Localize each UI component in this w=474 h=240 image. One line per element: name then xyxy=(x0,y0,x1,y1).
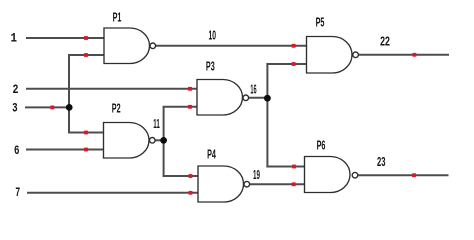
bubble P1 output xyxy=(150,43,156,49)
gate NAND P6 body xyxy=(305,157,351,193)
wire input line 6 xyxy=(26,149,104,151)
pin mark line3 xyxy=(50,106,54,110)
pin mark P2A xyxy=(84,131,88,135)
wire net 22 output xyxy=(359,54,449,56)
junction node 3 xyxy=(66,104,73,111)
bubble P6 output xyxy=(352,172,358,178)
wire vertical net3 xyxy=(68,54,70,134)
svg-text:P5: P5 xyxy=(316,15,325,29)
svg-text:22: 22 xyxy=(380,35,390,49)
bubble P3 output xyxy=(243,95,249,101)
bubble P2 output xyxy=(150,138,156,144)
svg-text:19: 19 xyxy=(253,168,260,182)
pin mark net22 xyxy=(413,53,417,57)
svg-text:P2: P2 xyxy=(112,101,121,115)
bubble P4 output xyxy=(244,181,250,187)
svg-text:P4: P4 xyxy=(207,147,216,161)
pin mark P6A xyxy=(292,165,296,169)
wire vertical net 11 xyxy=(163,107,165,177)
wire net 16 stub from P3 bubble xyxy=(249,97,269,99)
gate NAND P4 body xyxy=(198,166,244,202)
pin mark line6-P2B xyxy=(84,148,88,152)
gate NAND P1 body xyxy=(104,28,150,64)
svg-text:P3: P3 xyxy=(206,60,215,74)
pin mark P6B xyxy=(292,182,296,186)
svg-text:11: 11 xyxy=(153,117,160,131)
svg-text:2: 2 xyxy=(13,82,19,97)
junction node 11 xyxy=(160,137,167,144)
gate NAND P5 body xyxy=(307,37,353,74)
pin mark line1-P1A xyxy=(84,36,88,40)
bubble P5 output xyxy=(353,52,359,58)
junction node 16 xyxy=(264,95,271,102)
wire net 11 stub from P2 bubble xyxy=(155,139,164,141)
pin mark line2-P3A xyxy=(188,87,192,91)
svg-text:10: 10 xyxy=(208,29,216,43)
pin mark net23 xyxy=(412,173,416,177)
wire P1 pin B stub xyxy=(68,54,104,56)
svg-text:6: 6 xyxy=(14,143,20,158)
svg-text:16: 16 xyxy=(250,83,256,97)
wire input line 3 xyxy=(25,106,69,108)
svg-text:P1: P1 xyxy=(113,10,122,24)
pin mark P3B xyxy=(188,105,192,109)
wire P4 pin A xyxy=(163,175,198,177)
wire net 10 P1 output to P5 pin A xyxy=(156,45,307,47)
wire input line 2 xyxy=(26,88,197,90)
wire P5 pin B xyxy=(266,63,306,65)
wire vertical net 16 xyxy=(266,63,268,168)
svg-text:23: 23 xyxy=(377,155,386,169)
wire P6 pin A xyxy=(266,166,304,168)
pin mark P1B xyxy=(84,53,88,57)
gate NAND P2 body xyxy=(104,123,150,159)
svg-text:7: 7 xyxy=(15,185,20,200)
gate NAND P3 body xyxy=(197,80,243,116)
wire net 19 P4 output to P6 pin B xyxy=(250,183,305,185)
svg-text:1: 1 xyxy=(11,31,18,46)
wire net 23 output xyxy=(358,174,449,176)
svg-text:3: 3 xyxy=(12,101,18,116)
pin mark P5B xyxy=(292,62,296,66)
svg-text:P6: P6 xyxy=(317,138,326,152)
wire input line 7 xyxy=(27,192,198,194)
wire P2 pin A stub xyxy=(68,132,104,134)
wire input line 1 xyxy=(26,37,104,39)
pin mark P4A xyxy=(189,174,193,178)
wire P3 pin B xyxy=(163,106,197,108)
pin mark P5A xyxy=(292,44,296,48)
pin mark line7-P4B xyxy=(189,191,193,195)
